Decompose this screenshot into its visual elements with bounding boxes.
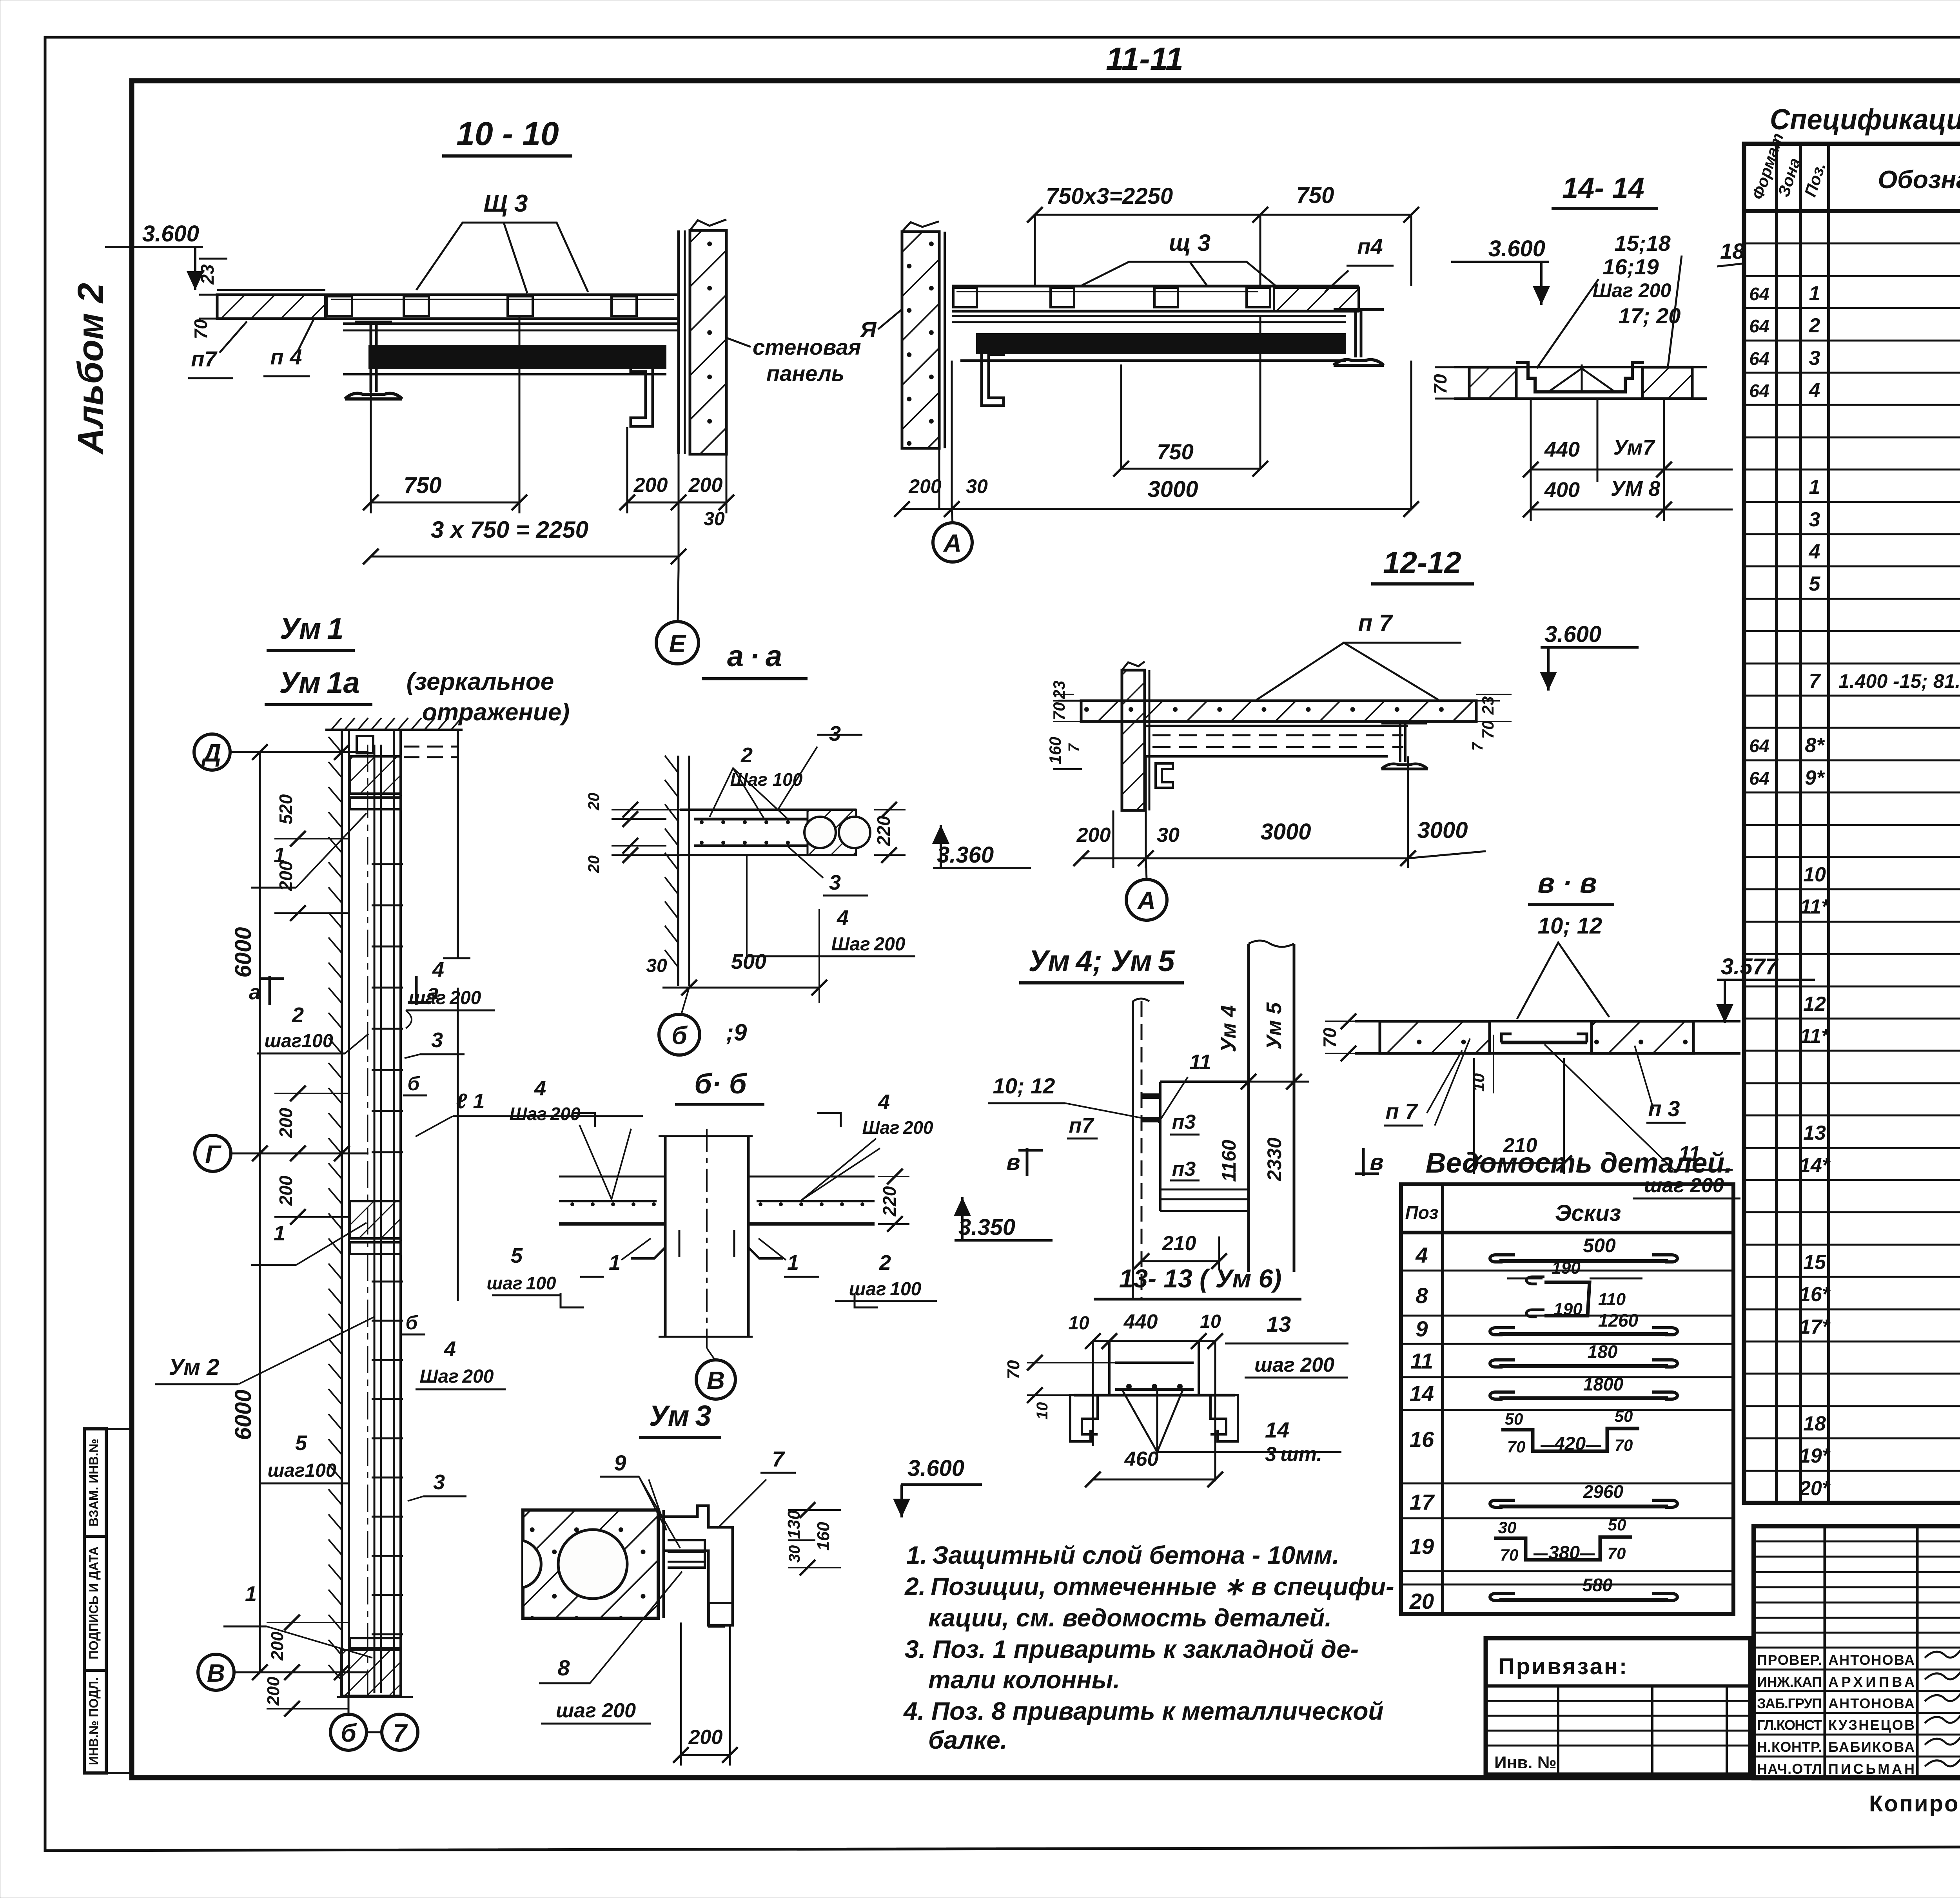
svg-text:3: 3 [433, 1470, 445, 1494]
svg-text:ИНВ.№ ПОДЛ.: ИНВ.№ ПОДЛ. [87, 1677, 101, 1765]
section 11-11 I-beam right [1334, 308, 1384, 311]
svg-text:13- 13 ( Ум 6): 13- 13 ( Ум 6) [1119, 1264, 1282, 1293]
svg-text:50: 50 [1615, 1407, 1633, 1425]
svg-text:30: 30 [646, 955, 667, 976]
um1 embedded plate mid [350, 1201, 401, 1238]
svg-text:п3: п3 [1172, 1158, 1196, 1180]
svg-text:шаг 200: шаг 200 [1644, 1174, 1724, 1197]
um1 top slab hatch [325, 729, 463, 731]
svg-text:1. Защитный слой бетона - 10мм: 1. Защитный слой бетона - 10мм. [906, 1541, 1339, 1569]
svg-text:3.577: 3.577 [1721, 954, 1779, 979]
specification table grid [1744, 144, 1960, 1503]
svg-text:шаг 200: шаг 200 [556, 1699, 636, 1722]
svg-text:14: 14 [1410, 1381, 1434, 1406]
svg-text:3000: 3000 [1147, 477, 1198, 502]
svg-text:3. Поз. 1 приварить к закладно: 3. Поз. 1 приварить к закладной де- [905, 1635, 1359, 1663]
section 12-12 channel small [1156, 763, 1173, 788]
svg-text:17; 20: 17; 20 [1619, 303, 1681, 328]
svg-text:3.600: 3.600 [1544, 622, 1601, 647]
svg-text:ПОДПИСЬ И ДАТА: ПОДПИСЬ И ДАТА [87, 1546, 101, 1659]
section b-b corner symbols [572, 1113, 595, 1127]
svg-text:9: 9 [1416, 1316, 1428, 1341]
svg-text:1: 1 [609, 1251, 621, 1274]
um1 wall hatched line [341, 730, 343, 1697]
svg-text:14: 14 [1265, 1418, 1289, 1442]
um1 axis V [198, 1654, 234, 1690]
svg-text:6000: 6000 [230, 1389, 256, 1440]
svg-text:ГЛ.КОНСТ: ГЛ.КОНСТ [1757, 1717, 1822, 1733]
svg-text:10; 12: 10; 12 [993, 1073, 1055, 1098]
svg-text:п 4: п 4 [270, 344, 302, 369]
svg-text:3 шт.: 3 шт. [1265, 1443, 1322, 1466]
svg-text:190: 190 [1553, 1300, 1583, 1319]
svg-text:Эскиз: Эскиз [1555, 1200, 1621, 1226]
svg-text:20: 20 [585, 856, 603, 874]
svg-text:3.350: 3.350 [958, 1215, 1015, 1240]
svg-text:64: 64 [1749, 381, 1769, 401]
section 12-12 I-beam [1381, 722, 1427, 725]
section 11-11 slab panels [952, 285, 1359, 288]
svg-text:4: 4 [1809, 540, 1820, 563]
section b-b column [664, 1136, 667, 1337]
um4 um5 wall dashed [1132, 1001, 1134, 1299]
svg-text:200: 200 [1076, 824, 1111, 847]
section 11-11 wall panel left [902, 232, 939, 448]
svg-text:180: 180 [1588, 1341, 1618, 1362]
svg-text:12-12: 12-12 [1383, 545, 1461, 580]
svg-text:16*: 16* [1799, 1283, 1831, 1306]
svg-text:750: 750 [404, 473, 442, 498]
svg-text:7: 7 [1066, 743, 1082, 752]
svg-text:160: 160 [814, 1522, 833, 1551]
svg-text:16: 16 [1410, 1427, 1434, 1452]
svg-text:шаг100: шаг100 [264, 1031, 333, 1051]
svg-text:20: 20 [1409, 1589, 1434, 1613]
section b-b slabs [559, 1176, 665, 1178]
section 14-14 bottom dims [1530, 399, 1532, 521]
svg-text:11-11: 11-11 [1106, 41, 1183, 77]
svg-text:8: 8 [1416, 1283, 1428, 1308]
svg-text:Инв. №: Инв. № [1494, 1753, 1557, 1772]
svg-text:Копировал: Логинова: Копировал: Логинова [1869, 1791, 1960, 1816]
svg-text:8*: 8* [1805, 734, 1825, 757]
svg-text:п 7: п 7 [1386, 1099, 1419, 1124]
svg-text:Ум 3: Ум 3 [649, 1399, 711, 1432]
svg-text:50: 50 [1505, 1410, 1523, 1428]
svg-text:11: 11 [1410, 1349, 1433, 1373]
svg-text:440: 440 [1544, 438, 1580, 461]
svg-text:АРХИПВА: АРХИПВА [1828, 1674, 1915, 1690]
svg-text:2960: 2960 [1583, 1481, 1624, 1502]
svg-text:17*: 17* [1799, 1316, 1831, 1338]
section 14-14 trough element [1516, 363, 1644, 392]
svg-text:220: 220 [879, 1186, 900, 1216]
svg-text:70: 70 [1479, 721, 1497, 739]
section 13-13 channels [1070, 1395, 1098, 1441]
svg-text:Обозначение: Обозначение [1878, 165, 1960, 194]
svg-text:в: в [1370, 1149, 1383, 1175]
svg-text:11: 11 [1679, 1142, 1700, 1166]
svg-text:А: А [1137, 886, 1156, 915]
svg-text:7: 7 [1809, 670, 1821, 692]
svg-text:кации, см. ведомость деталей.: кации, см. ведомость деталей. [928, 1604, 1332, 1632]
svg-text:шаг 200: шаг 200 [409, 988, 481, 1008]
svg-text:2: 2 [879, 1251, 891, 1274]
svg-text:а · а: а · а [727, 640, 782, 673]
svg-text:200: 200 [276, 1108, 296, 1138]
svg-text:64: 64 [1749, 284, 1769, 304]
svg-text:3: 3 [431, 1028, 443, 1052]
svg-text:64: 64 [1749, 316, 1769, 336]
svg-text:160: 160 [1046, 737, 1064, 764]
svg-text:6000: 6000 [230, 927, 256, 977]
svg-text:3 x 750 = 2250: 3 x 750 = 2250 [431, 517, 588, 543]
svg-text:400: 400 [1544, 478, 1580, 502]
svg-text:Щ 3: Щ 3 [483, 190, 528, 217]
svg-text:23: 23 [1479, 696, 1497, 715]
section 10-10 bottom dims [370, 392, 372, 513]
svg-text:1: 1 [274, 843, 285, 867]
svg-text:200: 200 [264, 1677, 283, 1706]
svg-text:20: 20 [585, 793, 603, 811]
svg-text:1: 1 [787, 1251, 799, 1274]
svg-text:440: 440 [1123, 1311, 1158, 1333]
svg-text:190: 190 [1552, 1258, 1581, 1278]
svg-text:(зеркальное: (зеркальное [407, 668, 554, 695]
svg-text:220: 220 [873, 816, 894, 846]
section a-a wall [677, 756, 679, 986]
svg-text:1.400 -15; 81.540-01: 1.400 -15; 81.540-01 [1838, 670, 1960, 692]
svg-text:200: 200 [268, 1632, 287, 1661]
section 11-11 slab monolithic right [1274, 288, 1359, 311]
svg-text:15;18: 15;18 [1614, 231, 1671, 256]
svg-text:18: 18 [1720, 239, 1745, 263]
section 12-12 wall [1122, 670, 1145, 810]
svg-text:1: 1 [274, 1222, 285, 1245]
svg-text:200: 200 [688, 474, 723, 497]
um1 dashed top lines [404, 746, 457, 748]
svg-text:70: 70 [1507, 1438, 1526, 1456]
svg-text:200: 200 [688, 1726, 723, 1749]
svg-text:5: 5 [295, 1431, 307, 1455]
svg-text:8: 8 [557, 1655, 570, 1680]
svg-text:15: 15 [1803, 1251, 1826, 1274]
um3 bracket detail [662, 1510, 665, 1618]
um1 bottom axis circles 6 7 [330, 1714, 367, 1750]
svg-text:п7: п7 [191, 346, 218, 371]
section 10-10 slab panels [325, 294, 679, 296]
svg-text:3.600: 3.600 [1488, 236, 1545, 261]
svg-text:750: 750 [1296, 183, 1334, 208]
um1 centerline [367, 745, 368, 1697]
svg-text:3.360: 3.360 [937, 842, 994, 868]
section 10-10 wall panel [677, 230, 680, 454]
svg-text:Ум 1: Ум 1 [279, 612, 343, 645]
svg-text:70: 70 [1608, 1544, 1626, 1563]
section b-b corner brackets [631, 1224, 665, 1258]
svg-text:17: 17 [1410, 1490, 1435, 1514]
title block outer [1754, 1526, 1960, 1778]
svg-text:10: 10 [1034, 1402, 1051, 1420]
section 10-10 axis E [656, 622, 699, 664]
svg-text:КУЗНЕЦОВ: КУЗНЕЦОВ [1828, 1717, 1915, 1733]
svg-text:10: 10 [1803, 863, 1826, 886]
svg-text:п7: п7 [1069, 1114, 1094, 1137]
svg-text:14- 14: 14- 14 [1562, 172, 1644, 204]
svg-text:11*: 11* [1800, 1025, 1830, 1048]
svg-text:А: А [943, 529, 962, 557]
section 13-13 triangle legs [1122, 1389, 1157, 1452]
svg-text:б: б [671, 1021, 688, 1050]
svg-text:в · в: в · в [1538, 868, 1597, 899]
svg-text:В: В [707, 1366, 725, 1394]
svg-text:2330: 2330 [1263, 1137, 1285, 1181]
svg-text:16;19: 16;19 [1602, 254, 1659, 279]
section 10-10 I-beam [355, 321, 392, 324]
svg-text:10 - 10: 10 - 10 [456, 115, 559, 152]
svg-text:10: 10 [1068, 1313, 1089, 1334]
specification rows [1744, 243, 1960, 245]
svg-text:3.600: 3.600 [907, 1456, 964, 1481]
um4 um5 connection plates [1142, 1093, 1160, 1099]
svg-text:70: 70 [1500, 1546, 1519, 1564]
svg-text:500: 500 [731, 950, 766, 973]
svg-text:210: 210 [1162, 1232, 1196, 1255]
section 11-11 axis A [933, 523, 972, 562]
svg-text:шаг 100: шаг 100 [487, 1273, 556, 1293]
svg-text:Привязан:: Привязан: [1498, 1654, 1628, 1679]
section 12-12 bottom dims [1112, 810, 1114, 868]
svg-text:шаг100: шаг100 [267, 1460, 336, 1481]
um1 embedded plate bottom [341, 1650, 401, 1696]
svg-text:;9: ;9 [726, 1019, 747, 1046]
svg-text:4: 4 [837, 906, 849, 930]
svg-text:70: 70 [1050, 702, 1068, 721]
svg-text:1: 1 [1809, 282, 1820, 305]
svg-text:4: 4 [1809, 379, 1820, 402]
svg-text:Спецификация монолитных участк: Спецификация монолитных участков перекры… [1770, 103, 1960, 136]
svg-text:2: 2 [1809, 314, 1820, 337]
section a-a slab [680, 809, 856, 811]
svg-text:Шаг 200: Шаг 200 [509, 1104, 581, 1124]
svg-text:Ум 1а: Ум 1а [279, 666, 360, 700]
svg-text:б· б: б· б [694, 1068, 748, 1100]
svg-text:АНТОНОВА: АНТОНОВА [1828, 1695, 1915, 1711]
svg-text:750: 750 [1157, 439, 1193, 464]
svg-text:Поз.: Поз. [1801, 160, 1829, 199]
section 11-11 channel [982, 347, 1004, 406]
section a-a axis b ;9 [659, 1014, 700, 1055]
svg-text:АНТОНОВА: АНТОНОВА [1828, 1652, 1915, 1668]
svg-text:Г: Г [205, 1140, 221, 1168]
svg-text:19: 19 [1410, 1534, 1434, 1559]
svg-text:шаг 100: шаг 100 [849, 1279, 922, 1300]
svg-text:В: В [207, 1659, 225, 1687]
svg-text:Я: Я [860, 317, 877, 342]
svg-text:4: 4 [432, 958, 444, 981]
svg-text:30: 30 [1498, 1518, 1517, 1537]
svg-text:4: 4 [878, 1090, 890, 1114]
svg-text:7: 7 [772, 1447, 785, 1471]
svg-text:10; 12: 10; 12 [1538, 913, 1602, 939]
svg-text:13: 13 [1267, 1312, 1291, 1336]
section 10-10 channel [631, 364, 653, 426]
svg-text:13: 13 [1803, 1122, 1826, 1144]
svg-text:4: 4 [444, 1337, 456, 1361]
svg-text:Шаг 200: Шаг 200 [420, 1366, 494, 1387]
svg-text:б: б [341, 1719, 357, 1747]
svg-text:Поз: Поз [1405, 1202, 1439, 1223]
section 12-12 slab [1081, 701, 1476, 721]
svg-text:2. Позиции, отмеченные ∗ в спе: 2. Позиции, отмеченные ∗ в специфи- [904, 1572, 1394, 1601]
svg-text:3: 3 [1809, 347, 1820, 370]
svg-text:УМ 8: УМ 8 [1611, 477, 1661, 500]
svg-text:ВЗАМ. ИНВ.№: ВЗАМ. ИНВ.№ [87, 1439, 101, 1526]
svg-text:70: 70 [1430, 374, 1450, 394]
um4 um5 vertical members [1247, 944, 1250, 1272]
svg-text:200: 200 [908, 475, 942, 497]
svg-text:18: 18 [1803, 1412, 1826, 1435]
svg-text:2: 2 [292, 1003, 304, 1027]
svg-text:64: 64 [1749, 768, 1769, 789]
svg-text:520: 520 [276, 794, 296, 824]
svg-text:в: в [1006, 1149, 1020, 1175]
svg-text:Шаг 200: Шаг 200 [1593, 279, 1671, 301]
svg-text:1160: 1160 [1218, 1140, 1240, 1182]
um1 right boundary [457, 730, 459, 958]
svg-text:1: 1 [245, 1582, 257, 1606]
svg-text:ПРОВЕР.: ПРОВЕР. [1757, 1652, 1822, 1668]
svg-text:460: 460 [1124, 1448, 1159, 1470]
um1 axis A [194, 734, 230, 770]
um1 embedded plate top [350, 756, 401, 794]
svg-text:20*: 20* [1799, 1477, 1831, 1500]
svg-text:3.600: 3.600 [142, 221, 199, 247]
svg-text:стеновая: стеновая [753, 335, 861, 359]
svg-text:НАЧ.ОТЛ: НАЧ.ОТЛ [1757, 1761, 1822, 1777]
svg-text:23: 23 [1050, 681, 1068, 700]
svg-text:Альбом 2: Альбом 2 [71, 283, 111, 455]
section v-v embedded plate [1501, 1041, 1587, 1044]
svg-text:19*: 19* [1799, 1445, 1831, 1467]
svg-text:380: 380 [1548, 1543, 1580, 1563]
svg-text:ℓ 1: ℓ 1 [456, 1089, 485, 1113]
um3 hollow slab section [523, 1510, 658, 1618]
section 14-14 slab [1469, 367, 1516, 399]
svg-text:п 7: п 7 [1358, 610, 1393, 636]
section a-a hollow core part [808, 810, 856, 855]
um1 ladder rungs [372, 863, 403, 865]
um1 dim 6000 top [259, 752, 261, 1672]
section 10-10 steel beam [343, 323, 679, 325]
um1 element verticals [348, 730, 350, 1697]
section 11-11 beam [952, 315, 1346, 317]
section 13-13 element [1108, 1341, 1111, 1395]
svg-text:1: 1 [1809, 476, 1820, 499]
svg-text:ЗАБ.ГРУП: ЗАБ.ГРУП [1757, 1695, 1822, 1711]
title block signature grid [1824, 1526, 1826, 1778]
svg-text:11: 11 [1189, 1050, 1211, 1074]
svg-text:70: 70 [1319, 1028, 1340, 1048]
svg-text:Н.КОНТР.: Н.КОНТР. [1757, 1739, 1822, 1755]
svg-text:10: 10 [1200, 1311, 1221, 1332]
svg-text:23: 23 [197, 264, 218, 285]
svg-text:Ум 4: Ум 4 [1217, 1005, 1240, 1052]
left margin column small table [84, 1429, 106, 1773]
section 12-12 beam with dashed lines [1146, 725, 1408, 727]
svg-text:панель: панель [766, 361, 844, 386]
privyazan box [1486, 1638, 1750, 1775]
svg-text:200: 200 [633, 474, 668, 497]
svg-text:3: 3 [829, 722, 841, 745]
svg-text:щ 3: щ 3 [1169, 230, 1210, 256]
svg-text:750x3=2250: 750x3=2250 [1046, 183, 1173, 209]
svg-text:4. Поз. 8 приварить к металлич: 4. Поз. 8 приварить к металлической [903, 1697, 1384, 1725]
svg-text:Шаг 200: Шаг 200 [831, 934, 906, 955]
svg-text:БАБИКОВА: БАБИКОВА [1828, 1739, 1915, 1755]
svg-text:Е: Е [669, 629, 687, 658]
svg-text:Ум 4; Ум 5: Ум 4; Ум 5 [1029, 944, 1176, 978]
svg-text:30: 30 [966, 475, 988, 497]
um1 axis G [195, 1135, 231, 1171]
svg-text:64: 64 [1749, 736, 1769, 756]
svg-text:50: 50 [1608, 1515, 1626, 1534]
svg-text:5: 5 [1809, 573, 1821, 595]
svg-text:Ум 2: Ум 2 [169, 1354, 219, 1380]
svg-text:3000: 3000 [1417, 818, 1468, 843]
svg-text:1260: 1260 [1598, 1310, 1639, 1331]
svg-text:9: 9 [614, 1450, 626, 1475]
section 12-12 axis A [1126, 879, 1167, 920]
svg-text:1800: 1800 [1583, 1374, 1624, 1394]
svg-text:70: 70 [1004, 1360, 1023, 1379]
svg-text:4: 4 [1415, 1243, 1428, 1267]
svg-text:ИНЖ.КАП: ИНЖ.КАП [1757, 1674, 1822, 1690]
vedomost table grid [1401, 1184, 1733, 1614]
svg-text:9*: 9* [1805, 767, 1825, 789]
svg-text:Ум 5: Ум 5 [1262, 1002, 1286, 1050]
svg-text:12: 12 [1803, 993, 1826, 1015]
section b-b axis V [696, 1360, 735, 1399]
svg-text:64: 64 [1749, 348, 1769, 369]
svg-text:4: 4 [534, 1077, 546, 1100]
svg-text:шаг 200: шаг 200 [1254, 1354, 1334, 1376]
svg-text:б: б [408, 1073, 421, 1095]
svg-text:ПИСЬМАН: ПИСЬМАН [1828, 1761, 1915, 1777]
svg-text:14*: 14* [1799, 1154, 1831, 1177]
svg-text:5: 5 [511, 1244, 523, 1267]
svg-text:п3: п3 [1172, 1111, 1196, 1133]
svg-text:7: 7 [393, 1719, 408, 1747]
um1 strip to axis circle connector [348, 1697, 350, 1714]
svg-text:580: 580 [1583, 1575, 1613, 1595]
svg-text:130: 130 [784, 1510, 804, 1539]
section 11-11 bottom dims [938, 448, 940, 509]
svg-text:200: 200 [276, 1175, 296, 1206]
svg-text:балке.: балке. [928, 1726, 1007, 1754]
svg-text:Ум7: Ум7 [1613, 436, 1655, 459]
svg-text:70: 70 [1615, 1436, 1633, 1454]
section 10-10 slab monolithic part [217, 295, 325, 319]
svg-text:тали колонны.: тали колонны. [928, 1666, 1120, 1694]
svg-text:30: 30 [704, 509, 725, 529]
svg-text:3: 3 [829, 871, 841, 894]
svg-text:а: а [249, 981, 261, 1004]
svg-text:б: б [406, 1312, 419, 1334]
svg-text:3000: 3000 [1260, 819, 1311, 845]
svg-text:210: 210 [1503, 1134, 1537, 1157]
svg-text:11*: 11* [1800, 896, 1830, 918]
